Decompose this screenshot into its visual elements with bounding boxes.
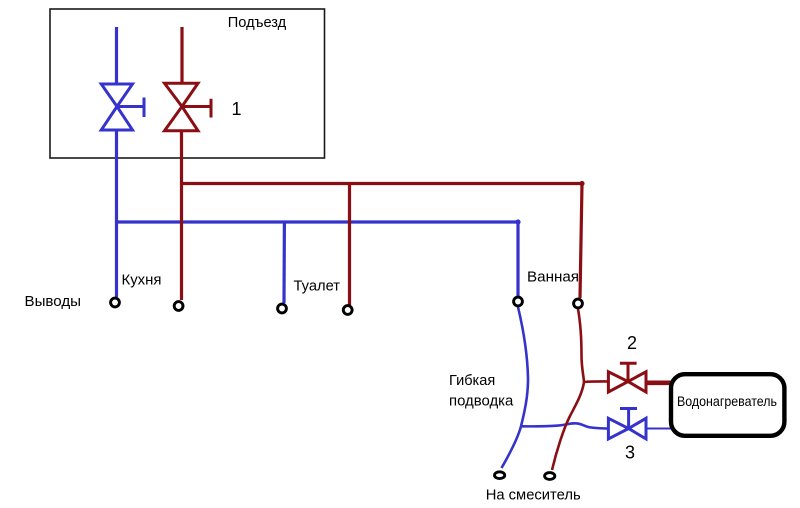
svg-text:Водонагреватель: Водонагреватель: [677, 393, 777, 409]
flexible hose hot (wavy red down from bathroom): [552, 309, 584, 470]
hot line to valve 2: [584, 380, 609, 383]
cold riser upper segment (blue): [115, 27, 118, 84]
outlet circle kitchen hot: [174, 302, 183, 311]
valve 3 cold (blue): [608, 409, 646, 439]
svg-text:Подъезд: Подъезд: [228, 14, 287, 31]
hot main horizontal line: [181, 182, 582, 185]
svg-text:Гибкая: Гибкая: [449, 372, 495, 389]
outlet circle bathroom cold: [514, 297, 523, 306]
outlet circle bathroom hot: [574, 299, 583, 308]
valve cold supply (blue, in box): [101, 84, 144, 130]
hot vertical drop to bathroom outlet: [580, 184, 582, 299]
cold drop to toilet outlet: [282, 222, 286, 303]
cold line corner dot: [515, 219, 520, 224]
cold vertical drop to bathroom outlet: [516, 222, 519, 296]
svg-text:На смеситель: На смеситель: [486, 487, 581, 504]
label Гибкая подводка: [449, 372, 514, 410]
cold riser lower segment to kitchen outlet: [115, 130, 118, 297]
flexible hose cold (wavy blue down from bathroom): [502, 307, 529, 468]
label 3: [625, 443, 635, 463]
svg-text:Кухня: Кухня: [122, 272, 162, 289]
svg-text:Ванная: Ванная: [527, 269, 579, 286]
label Кухня: [122, 272, 162, 289]
cold pipe valve 3 to heater: [646, 428, 671, 430]
svg-text:подводка: подводка: [449, 393, 514, 410]
outlet circle toilet cold: [278, 304, 287, 313]
hot riser lower segment to kitchen outlet: [180, 131, 183, 300]
mixer outlet circle hot: [545, 473, 555, 480]
label 1: [232, 99, 242, 119]
valve 2 hot (red): [608, 363, 646, 392]
cold wavy line to valve 3: [521, 423, 609, 428]
label 2: [627, 333, 637, 353]
cold main horizontal line: [117, 220, 519, 223]
label Ванная: [527, 269, 579, 286]
hot drop to toilet outlet: [348, 185, 351, 305]
label Туалет: [294, 278, 341, 295]
label На смеситель: [486, 487, 581, 504]
svg-text:2: 2: [627, 333, 637, 353]
svg-text:Выводы: Выводы: [25, 293, 82, 310]
box Подъезд: [50, 9, 325, 158]
hot riser upper segment (red): [180, 27, 183, 83]
water heater box: [671, 374, 784, 436]
valve 1 hot supply (red, in box): [165, 83, 212, 131]
hot line corner dot: [579, 181, 584, 186]
label Подъезд: [228, 14, 287, 31]
outlet circle toilet hot: [343, 306, 352, 315]
svg-text:3: 3: [625, 443, 635, 463]
outlet circle kitchen cold: [111, 298, 120, 307]
hot pipe valve 2 to heater (thick): [646, 380, 671, 385]
svg-text:Туалет: Туалет: [294, 278, 341, 295]
svg-text:1: 1: [232, 99, 242, 119]
mixer outlet circle cold: [495, 472, 505, 479]
label Выводы: [25, 293, 82, 310]
label Водонагреватель: [677, 393, 777, 409]
